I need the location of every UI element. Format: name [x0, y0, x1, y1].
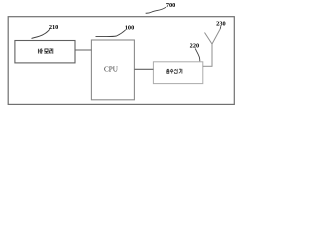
svg-text:700: 700: [166, 2, 175, 9]
memory block box 210: [15, 41, 75, 63]
CPU block box 100: [91, 40, 134, 100]
svg-text:CPU: CPU: [104, 66, 119, 74]
leader line for 230: [219, 26, 222, 29]
transceiver block box 220: [153, 62, 202, 84]
antenna 230: [205, 29, 221, 67]
transceiver text 송수신기: [166, 69, 182, 74]
svg-text:100: 100: [125, 25, 134, 32]
memory text 메모리: [38, 48, 52, 53]
leader line for 220: [195, 48, 200, 61]
leader line for 100: [96, 30, 126, 37]
wire antenna to transceiver: [203, 65, 213, 67]
leader line for 700: [146, 7, 166, 13]
outer border of device 700: [8, 17, 234, 105]
wire CPU to transceiver: [134, 68, 153, 70]
wire memory to CPU: [75, 49, 91, 51]
svg-text:210: 210: [49, 24, 58, 31]
leader line for 210: [32, 29, 50, 38]
svg-text:220: 220: [190, 43, 199, 50]
